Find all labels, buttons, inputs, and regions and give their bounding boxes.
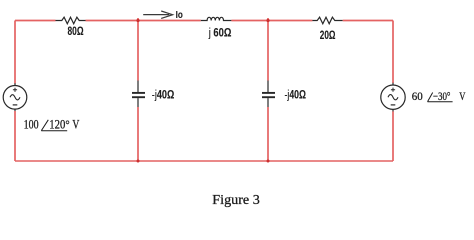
wire branch2 lower — [267, 107, 269, 161]
wire top segment 3 — [231, 20, 312, 22]
wire right vertical lower — [392, 111, 394, 161]
svg-text:60: 60 — [412, 91, 423, 103]
wire top-left segment — [15, 20, 56, 22]
angle symbol right source — [428, 93, 453, 102]
angle symbol left source — [41, 120, 67, 131]
svg-text:j 60Ω: j 60Ω — [208, 28, 232, 40]
wire left vertical upper — [14, 21, 16, 84]
svg-text:120°: 120° — [49, 118, 69, 132]
svg-text:Figure 3: Figure 3 — [212, 193, 259, 208]
svg-text:V: V — [72, 118, 79, 132]
wire bottom — [15, 160, 393, 162]
wire top-right segment — [343, 20, 393, 22]
wire branch1 lower — [137, 107, 139, 161]
source V2 plus sign — [391, 88, 395, 92]
junction dot branch1 bottom — [137, 160, 140, 163]
source V1 plus sign — [13, 88, 17, 92]
svg-text:V: V — [459, 91, 466, 103]
source V1 sine — [10, 95, 20, 100]
wire right vertical upper — [392, 21, 394, 84]
capacitor C2 -j40ohm — [262, 81, 275, 108]
source V2 lead stubs — [392, 83, 394, 112]
source V2 circle — [381, 85, 405, 109]
wire branch1 upper — [137, 18, 139, 81]
svg-text:80Ω: 80Ω — [68, 26, 84, 38]
inductor L1 j60ohm — [201, 17, 232, 20]
junction dot branch2 top — [266, 19, 269, 22]
svg-text:100: 100 — [24, 118, 39, 132]
wire top segment 2 — [86, 20, 201, 22]
source V2 sine — [388, 95, 398, 100]
wire branch2 upper — [267, 18, 269, 81]
source V2 minus sign — [391, 104, 396, 106]
wire left vertical lower — [14, 111, 16, 161]
capacitor C1 -j40ohm — [132, 81, 145, 108]
junction dot branch2 bottom — [267, 160, 270, 163]
source V1 lead stubs — [14, 83, 16, 111]
junction dot branch1 top — [136, 19, 139, 22]
arrow Io — [143, 11, 172, 18]
svg-text:20Ω: 20Ω — [320, 30, 336, 42]
resistor R2 20ohm — [312, 17, 342, 24]
resistor R1 80ohm — [56, 17, 86, 24]
svg-text:-j40Ω: -j40Ω — [285, 90, 307, 102]
svg-text:-j40Ω: -j40Ω — [152, 89, 174, 101]
svg-text:Io: Io — [176, 10, 183, 21]
source V1 minus sign — [13, 104, 18, 106]
source V1 circle — [3, 86, 27, 110]
